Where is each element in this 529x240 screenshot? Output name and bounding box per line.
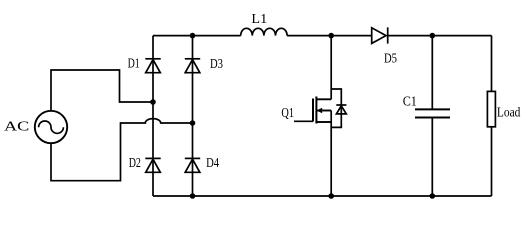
ac source AC xyxy=(35,111,67,143)
body diode of Q1 xyxy=(331,89,346,127)
svg-text:L1: L1 xyxy=(251,12,267,27)
junction node AC- to D3/D4 xyxy=(190,120,196,126)
Q1 drain stub xyxy=(316,98,331,100)
resistor Load xyxy=(487,91,495,126)
svg-text:AC: AC xyxy=(4,120,29,135)
wire AC bottom lead with hop over left branch xyxy=(51,119,193,181)
wire Q1 gate lead xyxy=(294,120,313,122)
wire top rail: D5 to output xyxy=(388,35,492,37)
junction D3 top to rail xyxy=(190,33,196,39)
diode D4 xyxy=(185,158,200,172)
wire top rail: L1 to D5 xyxy=(287,35,372,37)
wire right rail top xyxy=(491,36,493,92)
wire Q1 source vertical xyxy=(316,121,331,123)
Q1 body stub with arrow xyxy=(316,110,331,112)
diode D5 xyxy=(372,27,388,43)
junction Q1 source to bottom rail xyxy=(328,193,334,199)
wire bridge right branch xyxy=(192,36,194,196)
svg-text:Load: Load xyxy=(497,105,521,120)
diode D2 xyxy=(145,158,160,172)
junction D4 bottom to rail xyxy=(190,193,196,199)
diode D1 xyxy=(145,59,160,73)
svg-text:Q1: Q1 xyxy=(281,106,294,121)
wire AC top lead xyxy=(51,70,153,111)
diode D3 xyxy=(185,59,200,73)
svg-text:C1: C1 xyxy=(403,94,417,109)
wire right rail bottom xyxy=(491,127,493,196)
wire bottom rail xyxy=(153,195,492,197)
Q1 channel bar xyxy=(315,97,317,124)
svg-text:D4: D4 xyxy=(206,156,219,171)
svg-text:D1: D1 xyxy=(128,57,140,72)
wire top rail: bridge to L1 xyxy=(153,35,241,37)
svg-text:D3: D3 xyxy=(210,57,223,72)
capacitor C1 xyxy=(415,36,450,196)
transistor Q1 N-MOSFET xyxy=(294,36,331,196)
wire Q1 drain vertical xyxy=(330,36,332,100)
svg-text:D2: D2 xyxy=(129,156,141,171)
wire bridge left branch xyxy=(152,36,154,196)
junction C1 top xyxy=(430,33,436,39)
junction C1 bottom xyxy=(430,193,436,199)
junction Q1 drain to rail xyxy=(328,33,334,39)
Q1 gate bar xyxy=(312,99,314,122)
svg-text:D5: D5 xyxy=(384,52,397,67)
junction node AC+ to D1/D2 xyxy=(150,99,156,105)
inductor L1 xyxy=(241,28,287,35)
